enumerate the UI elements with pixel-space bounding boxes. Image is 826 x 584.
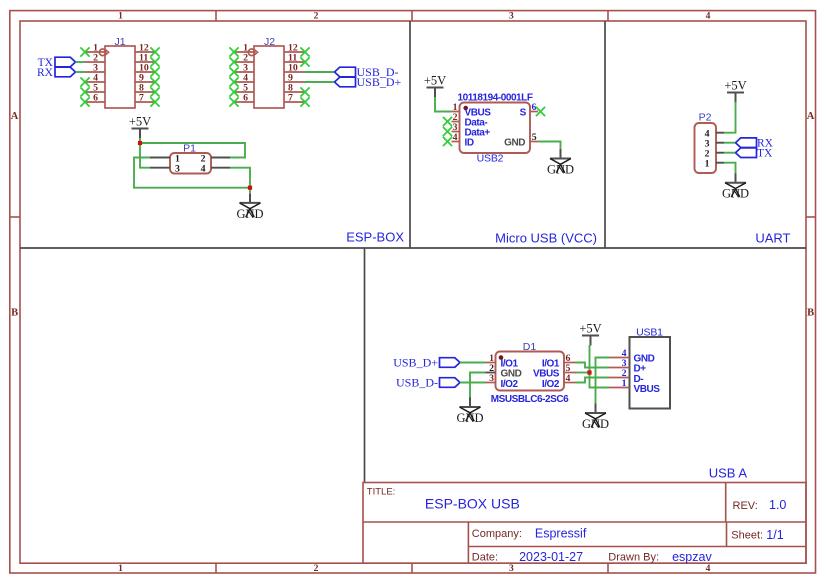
svg-text:espzav: espzav (672, 550, 712, 564)
svg-text:B: B (807, 308, 814, 319)
svg-text:I/O2: I/O2 (501, 379, 519, 390)
svg-text:USB_D-: USB_D- (396, 376, 438, 390)
power +5V symbol USB A (579, 321, 601, 345)
ground GND symbol Micro USB (547, 149, 574, 176)
connector J2 (234, 36, 304, 108)
svg-text:USB A: USB A (709, 466, 748, 481)
svg-text:ESP-BOX USB: ESP-BOX USB (425, 496, 520, 512)
svg-text:P1: P1 (183, 143, 196, 155)
svg-text:6: 6 (243, 93, 248, 104)
net label USB_D- (335, 65, 399, 79)
ground GND symbol USB A right (582, 404, 609, 431)
svg-text:TITLE:: TITLE: (367, 487, 396, 498)
power +5V symbol UART (724, 78, 746, 102)
wire +5V junction to P1 pin 2 (140, 143, 245, 158)
svg-text:P2: P2 (699, 112, 712, 124)
svg-text:4: 4 (453, 132, 458, 143)
micro-usb connector USB2 (452, 92, 539, 164)
net label RX (37, 67, 75, 79)
svg-text:GND: GND (456, 411, 483, 425)
svg-text:4: 4 (706, 12, 711, 22)
wire D1 pin 2 to GND (470, 373, 486, 398)
svg-text:1/1: 1/1 (766, 528, 783, 542)
svg-text:Sheet:: Sheet: (731, 530, 763, 542)
svg-text:4: 4 (566, 373, 571, 384)
svg-text:GND: GND (236, 207, 263, 221)
svg-text:REV:: REV: (733, 500, 758, 512)
svg-text:A: A (11, 111, 19, 122)
junction GND net (248, 186, 252, 190)
jumper P1 (150, 143, 230, 175)
ground GND symbol ESP-BOX (236, 193, 263, 220)
no-connect marks J2 (229, 47, 309, 106)
section divider USB A left edge (364, 248, 366, 483)
net label USB_D- (USB A) (396, 376, 460, 390)
svg-text:3: 3 (175, 164, 180, 175)
wire USB_D+ to D1 pin 1 (460, 362, 486, 364)
svg-text:2: 2 (314, 12, 319, 22)
svg-text:ESP-BOX: ESP-BOX (346, 230, 404, 245)
wire D1 pin 4 to USB1 D- (576, 378, 610, 383)
svg-text:1: 1 (705, 159, 710, 170)
svg-text:10118194-0001LF: 10118194-0001LF (458, 92, 533, 103)
wire RX to J1 pin 3 (76, 71, 86, 73)
net label RX (UART) (736, 138, 774, 150)
wire +5V to USB2 pin 1 (435, 97, 452, 112)
svg-text:B: B (11, 308, 18, 319)
svg-text:TX: TX (757, 148, 773, 160)
svg-text:6: 6 (93, 93, 98, 104)
wire USB_D- to D1 pin 3 (460, 382, 486, 384)
svg-text:2023-01-27: 2023-01-27 (519, 550, 583, 564)
wire D1 pin 5 to +5V junction (576, 372, 590, 374)
svg-text:S: S (520, 107, 527, 118)
svg-text:GND: GND (504, 138, 525, 149)
svg-text:VBUS: VBUS (634, 384, 661, 395)
wire +5V junction to P1 pin 3 (140, 143, 150, 168)
svg-text:1.0: 1.0 (769, 498, 786, 512)
usb-a connector USB1 (609, 326, 670, 408)
svg-text:Micro USB (VCC): Micro USB (VCC) (495, 231, 597, 246)
wire P1 pin 4 to GND junction (230, 168, 250, 188)
svg-text:A: A (807, 111, 815, 122)
svg-text:+5V: +5V (129, 114, 151, 128)
svg-text:5: 5 (532, 132, 537, 143)
wire USB1 GND pin 4 down to ground (596, 358, 610, 404)
wire USB2 pin 5 to GND (538, 142, 561, 150)
svg-text:1: 1 (118, 564, 123, 574)
svg-text:Drawn By:: Drawn By: (608, 552, 659, 564)
power +5V symbol ESP-BOX (129, 114, 151, 138)
net label USB_D+ (USB A) (393, 356, 460, 370)
svg-text:J1: J1 (114, 36, 125, 48)
svg-text:7: 7 (288, 93, 293, 104)
net label USB_D+ (335, 75, 402, 89)
svg-text:+5V: +5V (579, 321, 601, 335)
section divider ESP-BOX / Micro USB (409, 21, 411, 248)
svg-text:ID: ID (465, 138, 474, 149)
ground GND symbol UART (722, 173, 749, 200)
svg-text:GND: GND (547, 162, 574, 176)
svg-text:USB2: USB2 (477, 153, 504, 165)
wire +5V to junction (139, 138, 141, 143)
wire TX to J1 pin 2 (76, 61, 86, 63)
svg-text:Company:: Company: (472, 528, 522, 540)
wire P2 pin 3 to RX (724, 142, 736, 144)
svg-text:I/O2: I/O2 (542, 379, 560, 390)
svg-text:D1: D1 (523, 341, 537, 353)
wire J2 pin 9 to USB_D+ (304, 81, 335, 83)
wire +5V vertical to USB1 VBUS (590, 345, 610, 388)
svg-text:USB1: USB1 (636, 326, 663, 338)
svg-text:4: 4 (706, 564, 711, 574)
wire P2 pin 2 to TX (724, 152, 736, 154)
svg-text:Espressif: Espressif (535, 526, 587, 540)
svg-text:GND: GND (722, 187, 749, 201)
wire +5V to P2 pin 4 (724, 102, 736, 133)
svg-text:RX: RX (37, 67, 54, 79)
svg-text:3: 3 (509, 12, 514, 22)
svg-text:+5V: +5V (424, 73, 446, 87)
wire GND junction down (249, 188, 251, 194)
svg-text:3: 3 (509, 564, 514, 574)
net label TX (38, 57, 76, 69)
wire J2 pin 10 to USB_D- (304, 71, 335, 73)
svg-text:MSUSBLC6-2SC6: MSUSBLC6-2SC6 (491, 394, 569, 405)
svg-text:USB_D+: USB_D+ (357, 75, 402, 89)
svg-text:7: 7 (139, 93, 144, 104)
svg-text:Date:: Date: (472, 552, 498, 564)
wire P1 pin 1 to GND junction (134, 158, 250, 188)
svg-text:1: 1 (622, 378, 627, 389)
svg-text:USB_D+: USB_D+ (393, 356, 438, 370)
svg-text:2: 2 (314, 564, 319, 574)
svg-text:GND: GND (582, 417, 609, 431)
title block (363, 483, 806, 564)
no-connect marks J1 (80, 47, 159, 106)
connector J1 (85, 36, 155, 108)
power +5V symbol Micro USB (424, 73, 446, 97)
svg-text:UART: UART (755, 231, 790, 246)
junction +5V net USB A (587, 370, 591, 374)
section divider Micro USB / UART (604, 21, 606, 248)
no-connect marks USB2 (443, 107, 545, 146)
wire D1 pin 6 to USB1 D+ (576, 363, 610, 368)
section divider row A / row B (20, 247, 806, 249)
ground GND symbol USB A left (456, 398, 483, 425)
svg-text:J2: J2 (264, 36, 275, 48)
svg-text:3: 3 (489, 373, 494, 384)
junction +5V net (138, 141, 142, 145)
esd diode D1 (486, 341, 576, 405)
svg-text:+5V: +5V (724, 78, 746, 92)
net label TX (UART) (736, 148, 774, 160)
pin header P2 (695, 112, 725, 173)
svg-text:1: 1 (118, 12, 123, 22)
wire P2 pin 1 to GND (724, 163, 736, 174)
svg-text:4: 4 (201, 164, 206, 175)
